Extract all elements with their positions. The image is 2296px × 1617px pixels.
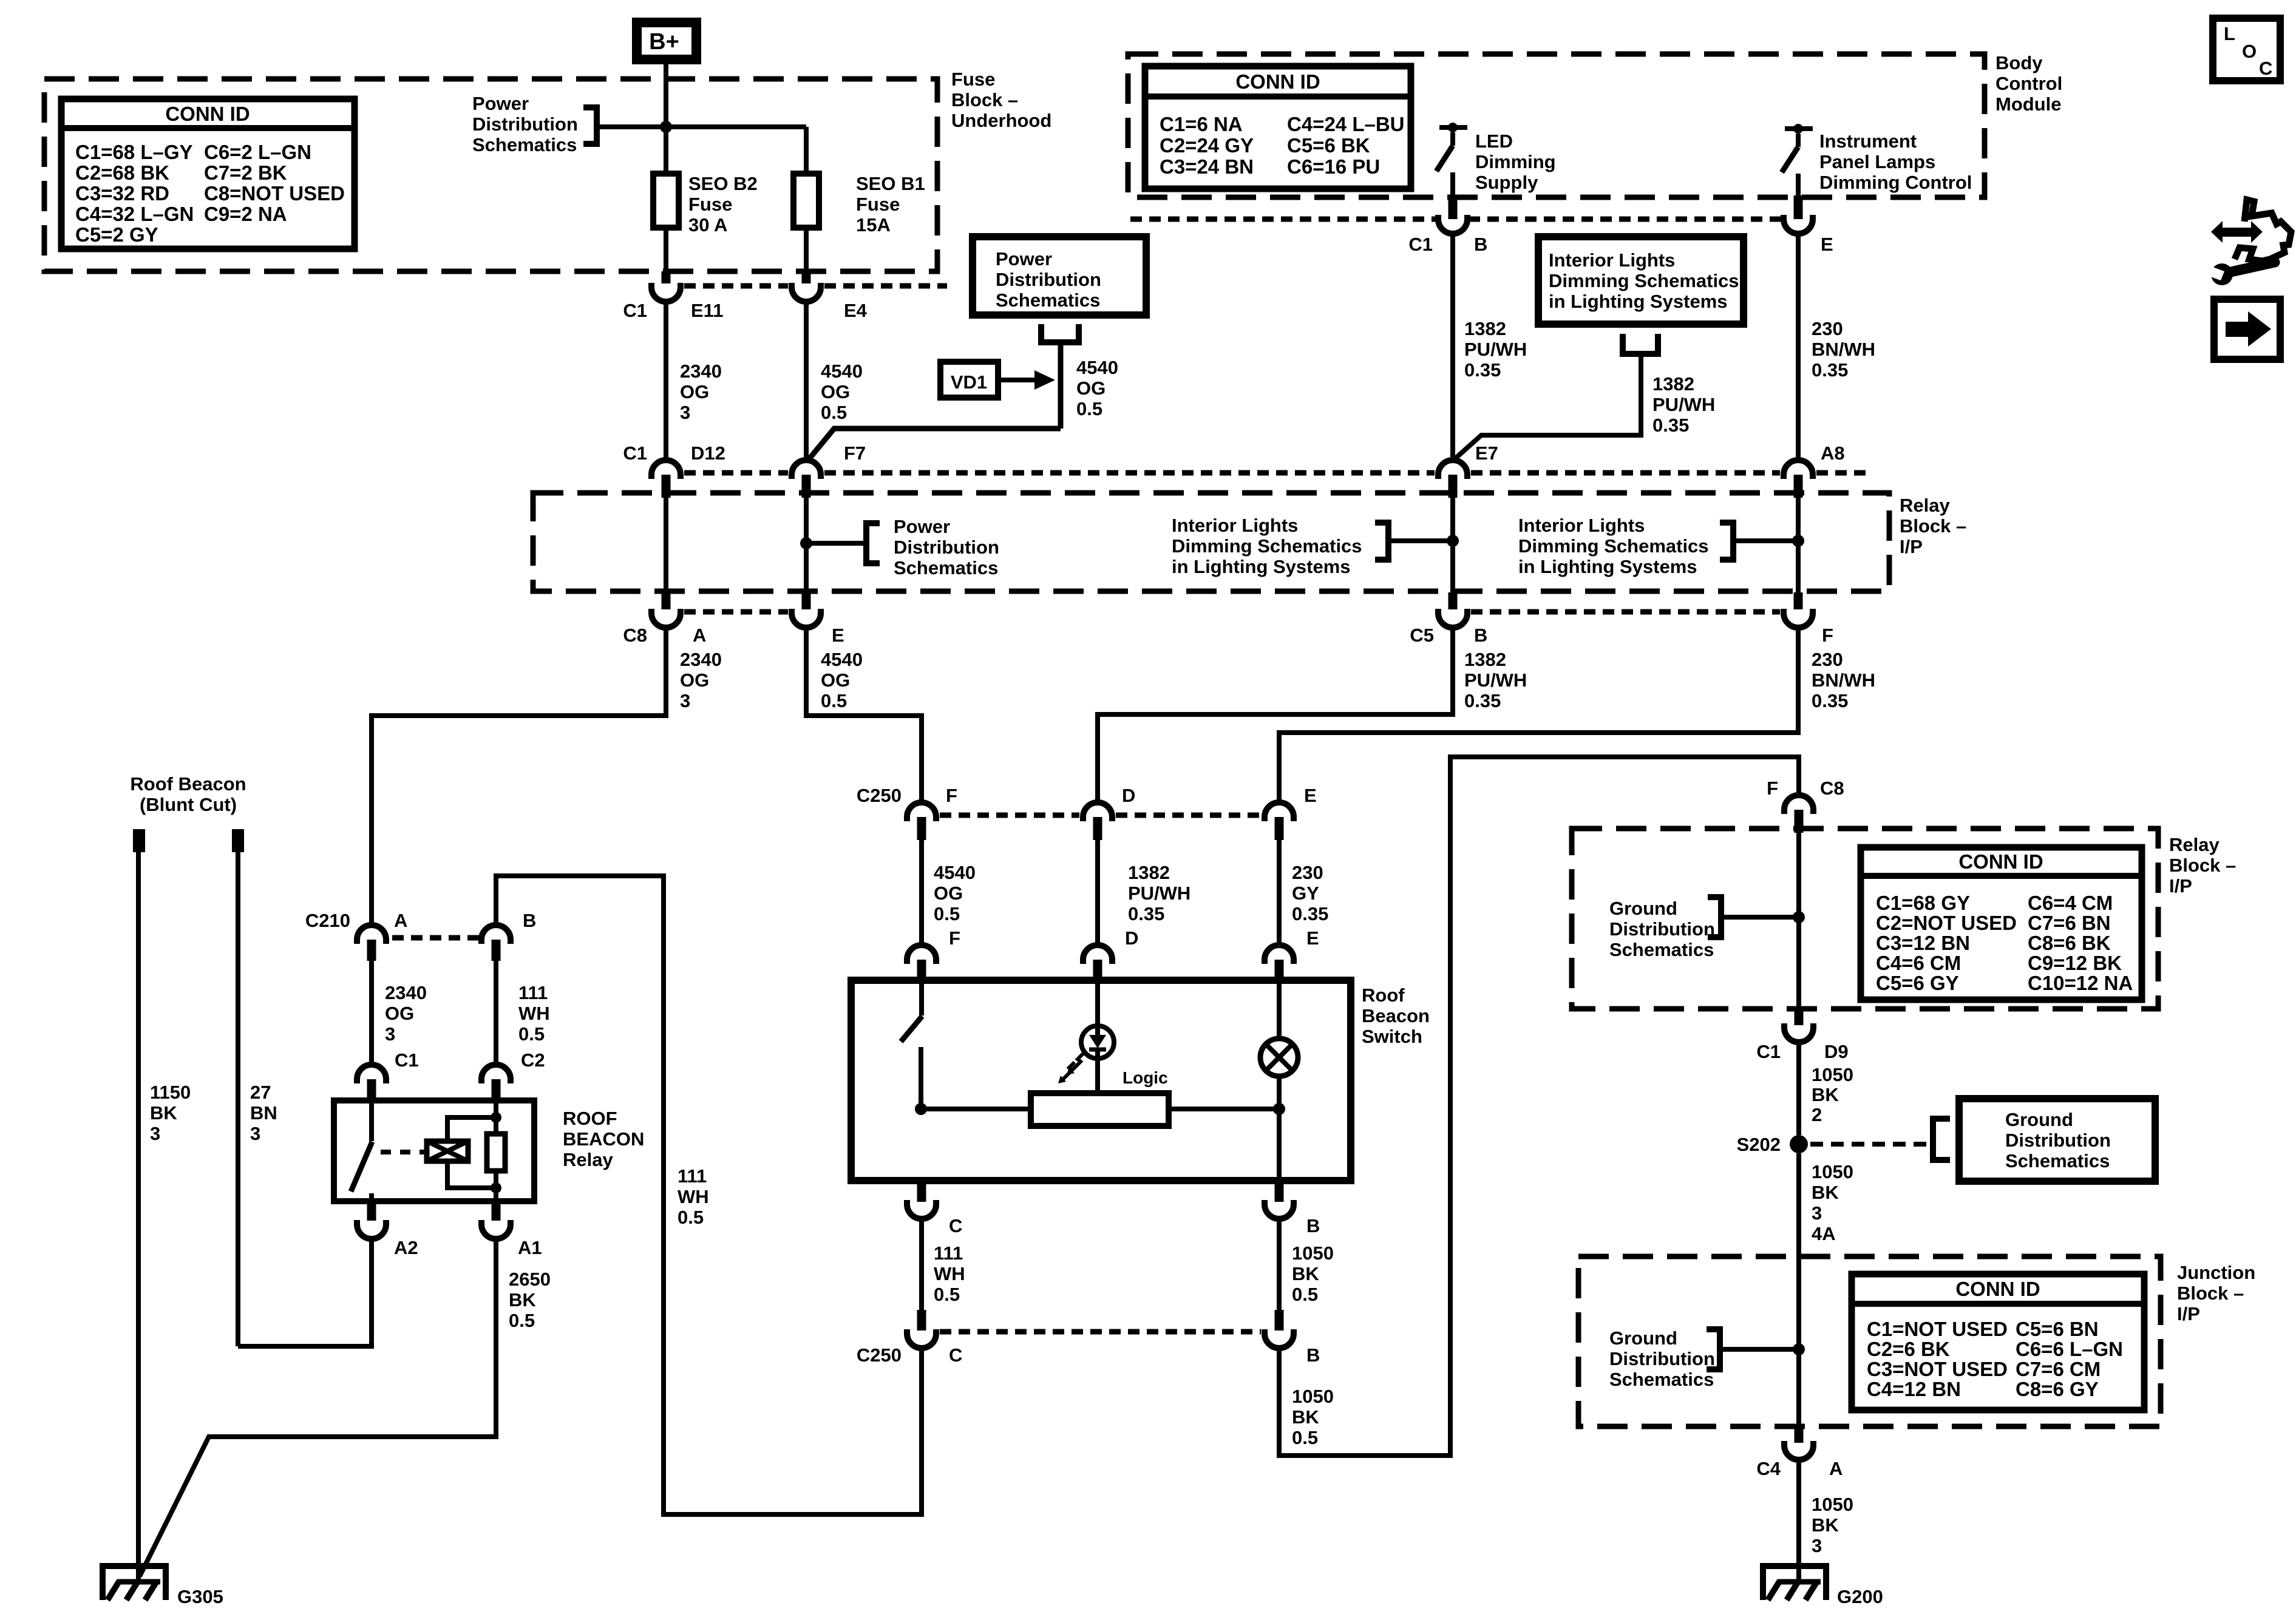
svg-text:OG: OG [821,670,850,691]
svg-text:OG: OG [934,883,963,904]
svg-text:0.35: 0.35 [1812,690,1848,711]
svg-text:Panel Lamps: Panel Lamps [1819,151,1935,172]
svg-text:Module: Module [1995,93,2062,115]
svg-text:Schematics: Schematics [1609,1369,1714,1390]
svg-text:Distribution: Distribution [1609,918,1715,940]
svg-text:Distribution: Distribution [894,537,999,558]
svg-text:Distribution: Distribution [996,269,1101,290]
svg-text:0.5: 0.5 [934,903,960,924]
svg-text:PU/WH: PU/WH [1652,394,1715,415]
svg-text:C7=6 BN: C7=6 BN [2028,912,2111,934]
svg-text:C210: C210 [305,910,350,931]
svg-text:E11: E11 [691,300,723,321]
svg-text:Ground: Ground [1609,898,1677,919]
svg-text:111: 111 [934,1242,963,1264]
svg-text:230: 230 [1812,318,1843,339]
svg-text:B: B [523,910,536,931]
svg-text:B+: B+ [649,29,679,55]
svg-text:Underhood: Underhood [951,110,1051,131]
svg-text:F: F [1767,778,1778,799]
svg-text:BEACON: BEACON [563,1128,644,1150]
svg-text:C: C [949,1215,962,1236]
svg-text:1382: 1382 [1464,318,1506,339]
svg-text:Relay: Relay [1900,495,1950,516]
svg-text:2: 2 [1812,1104,1822,1125]
svg-text:F: F [949,927,960,949]
svg-text:D: D [1122,785,1135,806]
svg-text:SEO B1: SEO B1 [856,173,925,194]
svg-text:Schematics: Schematics [894,557,998,578]
svg-text:C6=16 PU: C6=16 PU [1287,155,1380,178]
svg-text:C7=2 BK: C7=2 BK [204,161,287,184]
svg-text:I/P: I/P [2169,875,2192,897]
svg-text:C4=24 L–BU: C4=24 L–BU [1287,113,1405,135]
svg-text:Dimming Schematics: Dimming Schematics [1172,535,1362,557]
svg-text:C5=2 GY: C5=2 GY [75,223,158,246]
svg-text:A: A [693,625,706,646]
svg-text:3: 3 [680,690,690,711]
svg-text:B: B [1306,1344,1320,1366]
svg-text:Schematics: Schematics [996,290,1100,311]
svg-text:D9: D9 [1824,1041,1849,1062]
svg-text:111: 111 [678,1165,707,1187]
svg-text:C8=NOT USED: C8=NOT USED [204,182,345,205]
svg-text:0.35: 0.35 [1652,415,1689,436]
svg-text:C4=12 BN: C4=12 BN [1867,1378,1961,1400]
svg-text:BK: BK [509,1289,536,1310]
svg-text:C4=32 L–GN: C4=32 L–GN [75,203,194,225]
svg-text:0.35: 0.35 [1128,903,1164,924]
svg-text:GY: GY [1292,883,1319,904]
svg-text:BK: BK [1812,1182,1839,1203]
svg-text:2340: 2340 [680,649,722,670]
svg-text:3: 3 [250,1123,260,1144]
svg-text:Instrument: Instrument [1819,131,1917,152]
svg-text:D: D [1125,927,1138,949]
svg-text:E: E [1306,927,1319,949]
svg-text:F7: F7 [844,442,866,464]
svg-text:(Blunt Cut): (Blunt Cut) [140,794,237,815]
svg-text:C1=68 L–GY: C1=68 L–GY [75,141,193,163]
svg-text:B: B [1474,234,1487,255]
svg-text:Body: Body [1995,52,2043,73]
svg-text:3: 3 [385,1023,395,1045]
svg-text:C2=NOT USED: C2=NOT USED [1876,912,2017,934]
svg-text:Fuse: Fuse [688,194,732,215]
svg-text:Switch: Switch [1362,1026,1422,1047]
svg-text:C7=6 CM: C7=6 CM [2016,1358,2101,1380]
svg-text:2340: 2340 [680,361,722,382]
svg-text:PU/WH: PU/WH [1128,883,1190,904]
svg-text:L: L [2224,23,2235,44]
svg-text:C5=6 GY: C5=6 GY [1876,972,1959,994]
svg-text:0.5: 0.5 [509,1310,535,1331]
svg-text:Fuse: Fuse [856,194,900,215]
svg-text:O: O [2242,41,2257,62]
svg-text:BK: BK [1812,1514,1839,1536]
svg-text:4540: 4540 [821,361,863,382]
svg-text:Distribution: Distribution [472,114,578,135]
svg-text:C250: C250 [857,1344,902,1366]
svg-text:Interior Lights: Interior Lights [1549,249,1675,271]
svg-text:C2=6 BK: C2=6 BK [1867,1338,1950,1360]
svg-text:Distribution: Distribution [1609,1348,1715,1369]
svg-text:C3=12 BN: C3=12 BN [1876,932,1970,954]
svg-text:111: 111 [518,982,548,1003]
svg-text:D12: D12 [691,442,725,464]
svg-text:A2: A2 [394,1237,418,1258]
svg-text:ROOF: ROOF [563,1108,617,1129]
svg-text:C8: C8 [1820,778,1844,799]
svg-text:0.5: 0.5 [821,402,847,423]
svg-text:G200: G200 [1837,1586,1883,1607]
svg-text:OG: OG [680,670,709,691]
svg-text:0.5: 0.5 [518,1023,545,1045]
svg-text:Beacon: Beacon [1362,1005,1430,1026]
svg-text:in Lighting Systems: in Lighting Systems [1172,556,1351,577]
svg-text:C5=6 BK: C5=6 BK [1287,134,1370,157]
svg-text:15A: 15A [856,214,891,236]
svg-text:Block –: Block – [951,89,1018,110]
svg-text:Roof: Roof [1362,985,1405,1006]
svg-text:C3=32 RD: C3=32 RD [75,182,169,205]
svg-text:E7: E7 [1475,442,1498,464]
svg-text:CONN ID: CONN ID [1955,1278,2040,1300]
svg-text:0.5: 0.5 [1292,1284,1318,1305]
svg-text:CONN ID: CONN ID [1235,70,1320,93]
svg-text:Interior Lights: Interior Lights [1172,515,1298,536]
svg-text:C5: C5 [1410,625,1434,646]
svg-text:OG: OG [385,1003,414,1024]
svg-text:E: E [1821,234,1833,255]
svg-text:Relay: Relay [2169,834,2220,855]
svg-text:I/P: I/P [1900,536,1923,557]
svg-text:1050: 1050 [1812,1161,1853,1182]
svg-text:WH: WH [678,1186,709,1207]
svg-text:Block –: Block – [2177,1283,2244,1304]
svg-text:4540: 4540 [821,649,863,670]
svg-text:Schematics: Schematics [1609,939,1714,960]
svg-text:SEO B2: SEO B2 [688,173,758,194]
svg-text:VD1: VD1 [951,371,987,393]
svg-text:C4=6 CM: C4=6 CM [1876,952,1961,974]
svg-text:Interior Lights: Interior Lights [1518,515,1645,536]
svg-text:230: 230 [1292,862,1323,883]
svg-text:E: E [1304,785,1317,806]
svg-text:C2=24 GY: C2=24 GY [1160,134,1254,157]
svg-text:OG: OG [821,381,850,402]
svg-text:0.35: 0.35 [1464,690,1501,711]
svg-text:C8: C8 [623,625,647,646]
svg-text:230: 230 [1812,649,1843,670]
svg-text:B: B [1306,1215,1320,1236]
svg-text:Supply: Supply [1475,172,1538,193]
svg-text:Dimming Schematics: Dimming Schematics [1518,535,1709,557]
svg-text:0.35: 0.35 [1464,359,1501,381]
svg-text:OG: OG [680,381,709,402]
svg-text:0.5: 0.5 [821,690,847,711]
svg-text:C1: C1 [623,300,647,321]
svg-text:F: F [946,785,957,806]
svg-text:Block –: Block – [2169,855,2236,876]
svg-text:2650: 2650 [509,1269,551,1290]
svg-text:S202: S202 [1737,1134,1781,1155]
svg-text:C: C [2259,58,2272,79]
svg-text:1050: 1050 [1812,1494,1853,1515]
svg-text:C9=2 NA: C9=2 NA [204,203,287,225]
svg-text:C6=4 CM: C6=4 CM [2028,892,2113,914]
svg-text:3: 3 [1812,1535,1822,1556]
svg-text:Schematics: Schematics [2005,1150,2110,1171]
svg-text:0.35: 0.35 [1812,359,1848,381]
svg-text:C8=6 GY: C8=6 GY [2016,1378,2099,1400]
svg-text:Logic: Logic [1123,1068,1168,1087]
svg-text:F: F [1822,625,1833,646]
svg-text:C8=6 BK: C8=6 BK [2028,932,2111,954]
svg-text:PU/WH: PU/WH [1464,339,1527,360]
svg-text:E: E [832,625,844,646]
svg-text:in Lighting Systems: in Lighting Systems [1518,556,1697,577]
svg-text:OG: OG [1076,378,1106,399]
svg-text:0.5: 0.5 [1292,1427,1318,1448]
svg-text:Junction: Junction [2177,1262,2255,1283]
svg-text:Power: Power [472,93,529,114]
svg-text:BN: BN [250,1102,277,1124]
svg-text:Relay: Relay [563,1149,613,1170]
svg-text:Dimming Control: Dimming Control [1819,172,1972,193]
svg-text:Fuse: Fuse [951,69,995,90]
svg-text:BN/WH: BN/WH [1812,339,1875,360]
svg-text:1382: 1382 [1464,649,1506,670]
svg-text:1150: 1150 [150,1082,191,1103]
svg-text:C3=24 BN: C3=24 BN [1160,155,1254,178]
svg-text:A1: A1 [518,1237,542,1258]
svg-text:Control: Control [1995,73,2062,94]
svg-text:BK: BK [1292,1406,1319,1428]
svg-text:CONN ID: CONN ID [165,103,250,125]
svg-text:CONN ID: CONN ID [1958,850,2043,873]
svg-text:C1: C1 [623,442,647,464]
svg-text:E4: E4 [844,300,868,321]
svg-text:BK: BK [1292,1263,1319,1284]
svg-text:0.5: 0.5 [934,1284,960,1305]
svg-text:I/P: I/P [2177,1303,2200,1324]
svg-text:C6=2 L–GN: C6=2 L–GN [204,141,311,163]
svg-text:C1: C1 [395,1049,419,1071]
svg-text:1382: 1382 [1128,862,1170,883]
svg-text:0.5: 0.5 [678,1207,704,1228]
svg-text:4540: 4540 [1076,357,1118,378]
svg-text:A: A [394,910,407,931]
svg-text:1382: 1382 [1652,373,1694,395]
svg-text:3: 3 [150,1123,160,1144]
svg-text:4A: 4A [1812,1223,1836,1244]
svg-text:27: 27 [250,1082,271,1103]
svg-text:C1: C1 [1408,234,1433,255]
svg-text:0.35: 0.35 [1292,903,1328,924]
svg-text:C1=NOT USED: C1=NOT USED [1867,1318,2008,1340]
svg-text:Power: Power [996,248,1052,269]
svg-text:2340: 2340 [385,982,427,1003]
svg-text:C250: C250 [857,785,902,806]
svg-text:BK: BK [1812,1084,1839,1105]
svg-text:WH: WH [518,1003,550,1024]
svg-text:G305: G305 [177,1586,223,1607]
svg-text:4540: 4540 [934,862,976,883]
svg-text:C10=12 NA: C10=12 NA [2028,972,2133,994]
svg-text:C2: C2 [521,1049,545,1071]
svg-text:A8: A8 [1821,442,1845,464]
svg-text:B: B [1474,625,1487,646]
svg-text:LED: LED [1475,131,1513,152]
svg-text:30 A: 30 A [688,214,727,236]
svg-text:0.5: 0.5 [1076,398,1102,419]
svg-text:C1=6 NA: C1=6 NA [1160,113,1243,135]
svg-text:C6=6 L–GN: C6=6 L–GN [2016,1338,2123,1360]
svg-text:C3=NOT USED: C3=NOT USED [1867,1358,2008,1380]
svg-text:3: 3 [680,402,690,423]
svg-text:BN/WH: BN/WH [1812,670,1875,691]
svg-text:WH: WH [934,1263,965,1284]
svg-text:Schematics: Schematics [472,134,577,155]
svg-text:C2=68 BK: C2=68 BK [75,161,169,184]
svg-text:Ground: Ground [2005,1109,2073,1130]
svg-text:1050: 1050 [1292,1242,1334,1264]
svg-text:C1=68 GY: C1=68 GY [1876,892,1970,914]
svg-text:Block –: Block – [1900,515,1966,537]
svg-text:PU/WH: PU/WH [1464,670,1527,691]
svg-text:C9=12 BK: C9=12 BK [2028,952,2122,974]
svg-text:A: A [1829,1458,1843,1479]
svg-text:Distribution: Distribution [2005,1130,2111,1151]
svg-text:1050: 1050 [1812,1064,1853,1085]
svg-text:Dimming: Dimming [1475,151,1556,172]
svg-text:1050: 1050 [1292,1386,1334,1407]
svg-text:3: 3 [1812,1202,1822,1224]
svg-text:C1: C1 [1756,1041,1781,1062]
svg-text:Roof Beacon: Roof Beacon [130,773,246,795]
svg-text:C5=6 BN: C5=6 BN [2016,1318,2099,1340]
svg-text:Dimming Schematics: Dimming Schematics [1549,270,1739,291]
svg-text:C4: C4 [1756,1458,1781,1479]
svg-text:Power: Power [894,516,950,537]
svg-text:C: C [949,1344,962,1366]
svg-text:in Lighting Systems: in Lighting Systems [1549,291,1728,312]
svg-text:BK: BK [150,1102,177,1124]
svg-text:Ground: Ground [1609,1327,1677,1349]
